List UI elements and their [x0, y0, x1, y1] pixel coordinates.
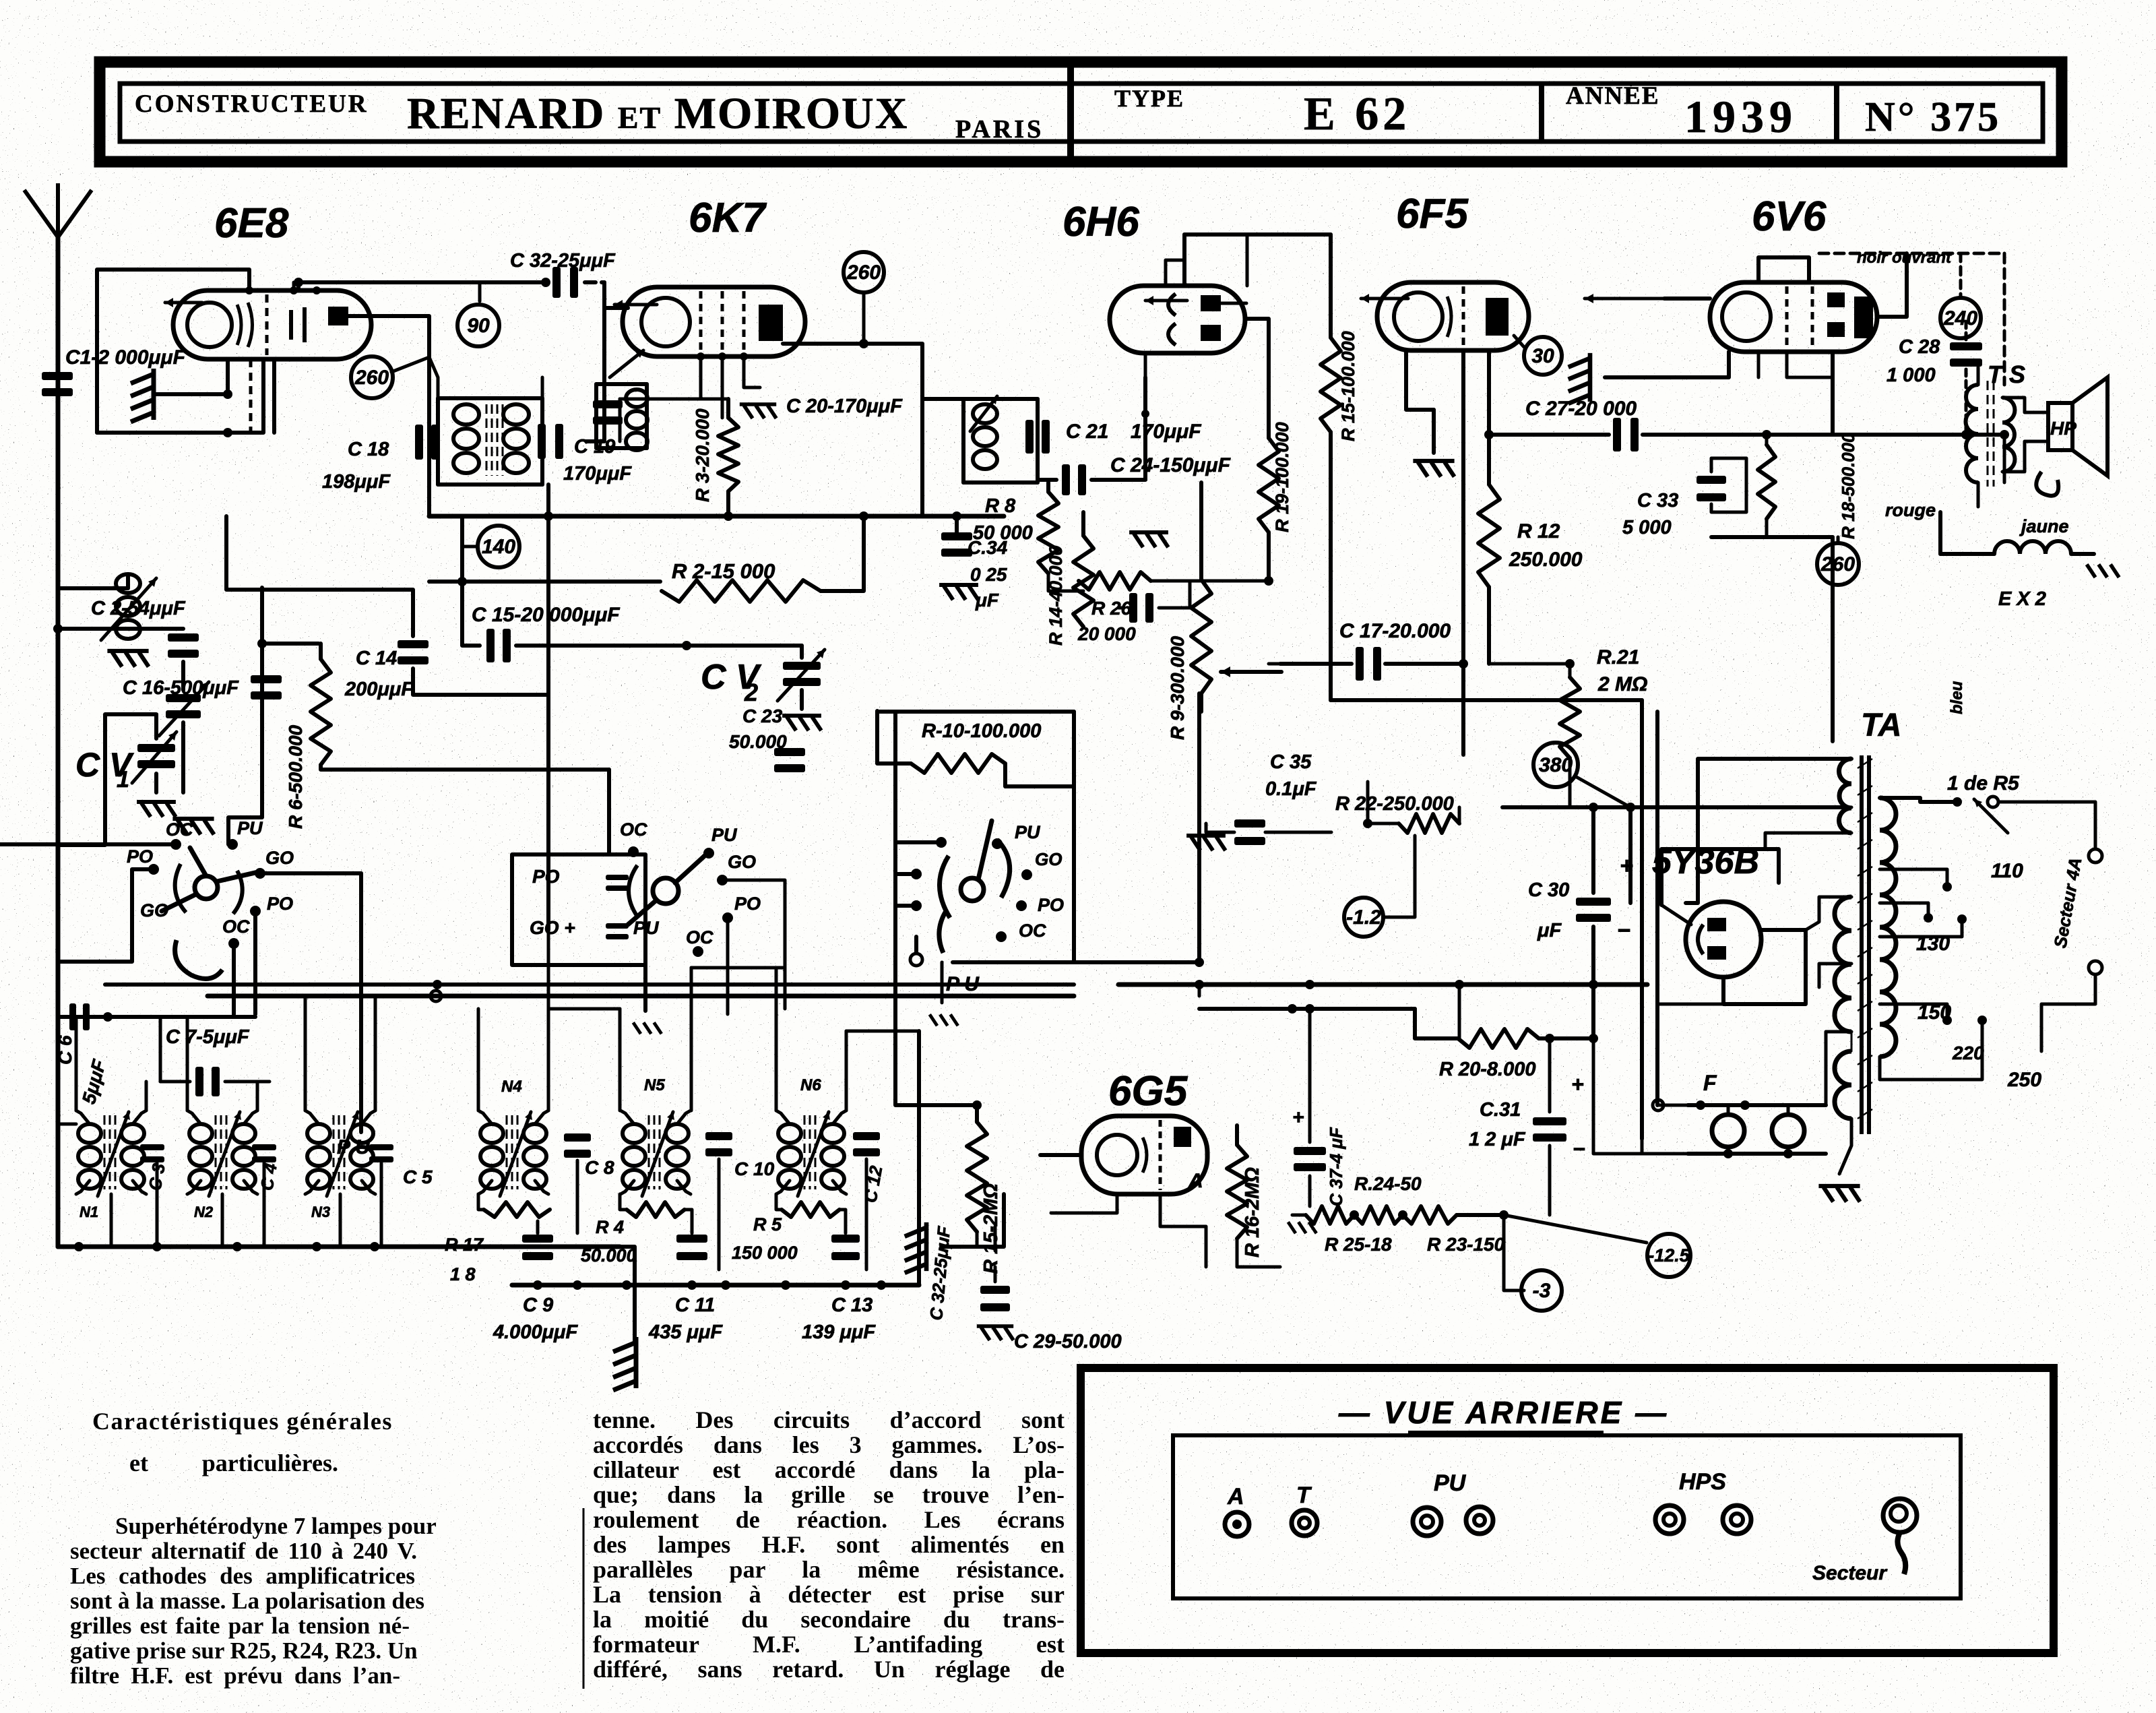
svg-text:R 14-40.000: R 14-40.000 [1046, 545, 1066, 646]
voltage node -3 [1521, 1270, 1562, 1311]
IF coil N6 arrow [798, 1112, 830, 1196]
svg-text:90: 90 [467, 315, 490, 337]
wire R16 bottom [1237, 1239, 1280, 1267]
wire grid cap into 6K7 [604, 306, 628, 310]
svg-text:R 6-500.000: R 6-500.000 [285, 724, 306, 829]
svg-text:N6: N6 [800, 1076, 821, 1094]
node R19/R26 [1264, 576, 1273, 586]
text right line 10 [593, 1631, 1065, 1658]
svg-text:+: + [1620, 853, 1633, 879]
wire C7 left up [159, 1017, 162, 1082]
svg-text:PU: PU [1015, 822, 1041, 842]
text left line 7 [70, 1663, 400, 1688]
wire main screen bus [429, 514, 1004, 519]
wire cathode to ground [1432, 410, 1436, 453]
wire C27 to 6V6 grid [1643, 433, 1833, 437]
6E8 cathode circle [187, 303, 232, 347]
contact SW3 left 1 [936, 837, 947, 848]
svg-text:139 μμF: 139 μμF [802, 1321, 876, 1343]
contact SW1 PO right [250, 906, 261, 916]
SW1 lever right [217, 872, 258, 881]
column divider [583, 1508, 585, 1689]
capacitor C28 [1950, 342, 1982, 367]
svg-text:C 27-20 000: C 27-20 000 [1525, 398, 1637, 420]
wire fuse top [1688, 1103, 1826, 1107]
IF1 primary coil [453, 404, 479, 473]
pin 6K7 [697, 352, 705, 361]
svg-text:bleu: bleu [1948, 681, 1966, 714]
IF coil N5 secondary [666, 1124, 689, 1189]
node R24/R23 [1398, 1210, 1407, 1220]
node bus R3 [724, 511, 733, 521]
contact SW3 OC [996, 931, 1007, 942]
contact SW2 GO [717, 875, 728, 885]
6V6 screen plates [1827, 292, 1845, 307]
contact SW1 GO right [255, 868, 265, 879]
wire 6V6 pins join [1787, 352, 1833, 377]
ground mid 6H6 [1129, 532, 1168, 547]
wire 6H6 plate out [1245, 319, 1269, 377]
wire SW2 PO down [726, 918, 730, 1014]
node bus c37 [1305, 980, 1314, 989]
oscillator coil N3 core [334, 1115, 344, 1189]
svg-text:C 23: C 23 [742, 706, 783, 726]
capacitor C23 [774, 748, 805, 772]
svg-text:C 14: C 14 [356, 648, 397, 669]
wire 260 stem up [1837, 537, 1840, 543]
contact SW1 PU [227, 839, 238, 850]
node bus2 C13 [841, 1280, 850, 1290]
wire R26 to R19 [1151, 580, 1269, 583]
wire 6E8 plate to bus [348, 316, 429, 516]
svg-text:R 5: R 5 [753, 1214, 782, 1235]
text right line 6 [593, 1532, 1065, 1558]
svg-text:1 000: 1 000 [1886, 365, 1936, 386]
svg-text:TA: TA [1861, 708, 1901, 743]
svg-text:GO +: GO + [530, 917, 575, 938]
svg-text:TYPE: TYPE [1114, 85, 1184, 112]
svg-text:R 3-20.000: R 3-20.000 [692, 408, 713, 502]
wire R23 right [1457, 1213, 1504, 1217]
6F5 filament arrow [1361, 294, 1408, 303]
wire SW1 OC2 down [232, 943, 236, 1014]
wire R17 left [478, 1194, 484, 1210]
wire gnd to R25 [1292, 1214, 1306, 1217]
wire to R21 [1489, 662, 1570, 666]
text right line 4 [593, 1482, 1065, 1508]
ground SW2 [633, 1022, 662, 1034]
svg-text:30: 30 [1531, 345, 1554, 367]
wire IF1 bottom [438, 482, 542, 487]
wire C32b up [994, 1226, 997, 1251]
node on grid box [223, 428, 232, 437]
node 110 [1942, 882, 1952, 892]
wire R2 right to bus [821, 516, 864, 591]
svg-text:GO: GO [265, 848, 294, 868]
band switch SW1 rotor [195, 876, 218, 899]
capacitor C37 [1294, 1147, 1326, 1171]
voltage node 30 at 6F5 [1524, 337, 1562, 375]
SW1 lever up [190, 848, 206, 876]
wire bus y1039 [1331, 698, 1642, 702]
wire R17 to C9 [536, 1221, 540, 1233]
wire to R2 [462, 580, 660, 584]
node 130b [1957, 914, 1967, 924]
wire to C27 [1489, 433, 1609, 437]
wire R9 bottom [1199, 693, 1203, 712]
wire TA fil to 5Y [1806, 897, 1851, 930]
node plate wire [859, 339, 868, 348]
wire bus to C34 [955, 516, 959, 536]
tuning coil N2 secondary [232, 1124, 255, 1189]
SW1 PU curve [175, 940, 222, 978]
terminal T [1292, 1510, 1317, 1536]
wire C17 right [1385, 662, 1463, 666]
svg-text:1 2 μF: 1 2 μF [1469, 1129, 1526, 1150]
wire output cathode line [1833, 433, 2004, 437]
antenna coil N1 secondary [121, 1124, 144, 1189]
wire R4 left [620, 1194, 627, 1210]
svg-text:PU: PU [237, 818, 263, 838]
wire IF2s left [961, 399, 965, 482]
svg-text:R 17: R 17 [445, 1235, 484, 1255]
ground near C20 [740, 404, 776, 418]
wire fuse stub [1727, 1105, 1730, 1115]
wire 6G5 out [1160, 1194, 1206, 1267]
svg-text:R.24-50: R.24-50 [1354, 1173, 1422, 1194]
ground C35 [1186, 836, 1226, 850]
svg-text:μF: μF [975, 590, 999, 611]
wire 380 stem [1575, 776, 1630, 807]
wire R5 left [776, 1194, 782, 1210]
wire SW3 box right [1072, 712, 1076, 962]
text right line 5 [593, 1507, 1065, 1533]
wire to C17 [1280, 662, 1352, 666]
wire R21 bottom [1568, 758, 1572, 807]
wire N6 link [846, 1030, 919, 1033]
svg-text:μF: μF [1537, 920, 1562, 941]
IF coil N5 lead [621, 1111, 634, 1124]
wire N1 sec up [145, 1082, 148, 1111]
svg-text:R 2-15 000: R 2-15 000 [672, 559, 775, 583]
node top bus left [294, 278, 303, 287]
rear view inner panel [1173, 1435, 1961, 1598]
node antenna junction [53, 624, 63, 633]
IF coil N5 primary [623, 1124, 645, 1189]
svg-text:140: 140 [482, 536, 515, 558]
triode 6F5 envelope [1377, 282, 1529, 350]
wire 6F5 cathode [1406, 350, 1434, 410]
svg-text:R 20-8.000: R 20-8.000 [1439, 1059, 1536, 1080]
wire CV1 top to antenna lead [58, 714, 156, 845]
wire IF2s bottom [963, 480, 1038, 485]
capacitor C6 [69, 1003, 90, 1030]
wire trimmer to ground [181, 722, 185, 792]
wire to R6 [262, 642, 319, 646]
resistor R23 [1403, 1206, 1457, 1224]
svg-text:C 16-500μμF: C 16-500μμF [123, 677, 239, 699]
capacitor C9 [522, 1235, 553, 1260]
wire IF2p bottom [596, 446, 647, 450]
wire to -3 [1504, 1215, 1524, 1290]
pin 6K7 2 [718, 352, 726, 361]
wire 6K7 grid loop down [586, 377, 604, 441]
6E8 plate hatch [291, 307, 305, 342]
svg-text:OC: OC [222, 916, 250, 937]
wire stem to 90 circle [478, 282, 482, 301]
svg-text:CONSTRUCTEUR: CONSTRUCTEUR [135, 90, 368, 118]
wire 6F5 grid down [1461, 350, 1465, 664]
wire selector to secteur [1998, 802, 2095, 848]
rectifier 5Y3GB envelope [1686, 902, 1761, 977]
svg-text:R.21: R.21 [1597, 646, 1639, 668]
contact SW3 GO [1021, 869, 1032, 880]
wire 6V6 arrow lead [1664, 297, 1710, 301]
wire antenna to N1 [58, 1123, 76, 1126]
node bus2 c [721, 1280, 730, 1290]
text left line 1 [115, 1514, 417, 1538]
svg-text:— VUE ARRIERE —: — VUE ARRIERE — [1338, 1395, 1669, 1430]
wire C36 stub [1118, 606, 1124, 610]
SW1 arc 2 [233, 871, 243, 914]
wire 5Y bracket [1661, 849, 1779, 905]
wire N4 top up [477, 1009, 480, 1111]
wire N3 sec up [374, 996, 377, 1111]
node gb3 [232, 1242, 242, 1251]
node bus x814 [544, 511, 553, 521]
wire IF2s right [1036, 399, 1040, 482]
band switch SW3 rotor [961, 878, 984, 901]
wire TA to 5Y plate left [1686, 759, 1851, 903]
wire IF1 right side [540, 398, 544, 485]
svg-text:N° 375: N° 375 [1865, 94, 2001, 140]
svg-text:HPS: HPS [1679, 1469, 1726, 1495]
wire to SW1 OC [0, 842, 176, 846]
svg-text:C 33: C 33 [1637, 490, 1678, 511]
resistor R2 [662, 580, 821, 602]
IF coil N6 lead2 [833, 1111, 846, 1124]
wire bus left to R2 node [429, 580, 462, 584]
wire C10 down [718, 1159, 721, 1270]
text right line 8 [593, 1582, 1065, 1608]
wire screen bus [620, 398, 728, 401]
wire C37 down [1308, 1176, 1312, 1206]
resistor R19 [1259, 438, 1279, 532]
capacitor C32 bis [980, 1286, 1010, 1311]
wire N2 down [221, 1194, 224, 1247]
node open bus [431, 991, 441, 1001]
text left line 2 [70, 1538, 417, 1563]
svg-text:6K7: 6K7 [689, 195, 767, 241]
svg-text:C 32-25μμF: C 32-25μμF [510, 250, 616, 272]
svg-text:C 24-150μμF: C 24-150μμF [1110, 454, 1231, 476]
TA secondary winding [1880, 798, 1896, 1057]
pentode 6K7 envelope [623, 287, 805, 356]
terminal secteur 2 [2089, 961, 2102, 974]
ground 6E8 cathode [131, 369, 154, 422]
SW3 PU lever [939, 911, 946, 953]
wire C30 down [1591, 927, 1595, 1038]
ground CV2 [782, 716, 821, 730]
wire N3 top up [304, 996, 307, 1111]
ground SW3 [930, 1014, 958, 1026]
capacitor C34 [941, 532, 972, 557]
wire TS to HP [2002, 398, 2048, 412]
node left R2 [457, 577, 467, 586]
wire IF2 link [922, 397, 963, 401]
svg-text:E 62: E 62 [1304, 88, 1410, 140]
node R15 [972, 1100, 982, 1110]
resistor R10 [911, 754, 1005, 773]
CV2 arrow [778, 650, 825, 701]
tuning coil N2 lead [187, 1111, 201, 1124]
resistor R14 [1073, 536, 1093, 627]
wire C31 down [1548, 1146, 1552, 1215]
svg-text:-12.5: -12.5 [1648, 1245, 1690, 1266]
antenna coil N1 lead3 [76, 1181, 90, 1194]
svg-text:OC: OC [166, 819, 193, 840]
wire R22 stub up [1366, 782, 1370, 823]
wire bracket to tube [1661, 905, 1691, 925]
wire N2 top up [186, 1017, 189, 1111]
wire bus to ground [620, 1247, 635, 1344]
CV1 arrow [132, 732, 177, 783]
6G5 cathode circle [1097, 1135, 1137, 1175]
IF coil N5 lead4 [677, 1181, 691, 1194]
capacitor C1 [42, 372, 73, 396]
svg-text:PO: PO [532, 866, 560, 887]
wire 6E8 grid box [97, 270, 249, 433]
wire SW2 down [643, 949, 647, 1011]
svg-text:C 30: C 30 [1528, 879, 1569, 901]
svg-text:0.1μF: 0.1μF [1265, 778, 1317, 800]
voltage node 260 right [1817, 543, 1859, 585]
wire 6K7 grid loop vertical [602, 282, 606, 377]
wire 6H6 top loop left [1182, 235, 1186, 286]
svg-text:C 5: C 5 [403, 1166, 433, 1187]
band switch SW2 rotor [653, 878, 678, 904]
wire to R22 [1368, 822, 1399, 826]
wire C5 down [380, 1163, 383, 1247]
svg-text:HP: HP [2050, 418, 2076, 439]
svg-text:jaune: jaune [2019, 516, 2069, 536]
resistor R6 [311, 659, 331, 765]
svg-text:N4: N4 [501, 1078, 522, 1096]
IF2s arrow [970, 396, 997, 431]
capacitor C13 [831, 1235, 860, 1260]
svg-text:C 6: C 6 [55, 1035, 75, 1065]
SW1 lever left [162, 894, 196, 911]
svg-text:−: − [1617, 918, 1630, 943]
svg-text:N2: N2 [194, 1204, 214, 1220]
wire tap 110 [1880, 869, 1947, 883]
antenna [24, 183, 92, 237]
IF coil N4 core [507, 1115, 517, 1189]
svg-text:250.000: 250.000 [1509, 549, 1583, 571]
svg-text:R 16-2MΩ: R 16-2MΩ [1242, 1167, 1263, 1257]
svg-text:1: 1 [117, 767, 129, 792]
IF coil N6 lead4 [833, 1181, 846, 1194]
wire C32 out [585, 280, 604, 284]
text right line 3 [593, 1457, 1065, 1483]
6F5 grid dashed [1462, 286, 1465, 347]
oscillator coil N3 arrow [327, 1112, 359, 1196]
text left line 4 [70, 1588, 419, 1613]
svg-text:2: 2 [744, 679, 758, 706]
SW3 arc [939, 840, 1009, 918]
wire C2 to trimmer [181, 662, 185, 690]
wire IF1 top [438, 396, 542, 400]
svg-text:F: F [1703, 1071, 1717, 1095]
svg-text:C 21: C 21 [1066, 421, 1108, 443]
svg-text:R 15-100.000: R 15-100.000 [1338, 331, 1358, 441]
wire to C14 [262, 590, 413, 636]
wire dashed top to TS [1819, 252, 2004, 255]
node bus [1455, 980, 1464, 989]
node CV2 stem [682, 641, 691, 650]
svg-text:−: − [1573, 1137, 1585, 1161]
wire to 6E8 top [296, 282, 300, 290]
field coil EX2 [1994, 541, 2071, 554]
fuse 1 [1712, 1115, 1744, 1147]
node C28 [1961, 430, 1971, 439]
wire long vertical right 2 [1655, 712, 1659, 1105]
svg-text:R 18-500.000: R 18-500.000 [1838, 433, 1858, 539]
resistor R17 [484, 1202, 550, 1217]
contact SW2 OC [628, 846, 639, 857]
wire EX2 to ground [2071, 552, 2094, 556]
fuse 2 [1772, 1115, 1804, 1147]
beam tetrode 6V6 envelope [1710, 282, 1877, 352]
6E8 pin dashed down [249, 359, 253, 433]
wire R22 right up [1458, 807, 1461, 823]
IF coil N4 lead4 [535, 1181, 548, 1194]
6K7 anode plate [759, 305, 783, 341]
wire to R10 [877, 711, 911, 764]
terminal PU 1 [1413, 1507, 1441, 1536]
wire bus to C14 line [226, 516, 262, 590]
IF coil N4 arrow [500, 1112, 532, 1196]
wire C35 right [1265, 831, 1331, 834]
wire SW1 GO to bus [260, 871, 361, 875]
svg-text:C 7-5μμF: C 7-5μμF [166, 1026, 250, 1048]
capacitor C30 [1576, 898, 1611, 922]
capacitor C21 [1025, 420, 1050, 454]
trimmer C3 [140, 1144, 164, 1162]
node bus C34 [952, 511, 961, 521]
IF coil N4 primary [480, 1124, 503, 1189]
svg-text:C 8: C 8 [585, 1157, 614, 1178]
IF coil N6 core [804, 1115, 815, 1189]
resistor R8 [1038, 492, 1058, 573]
ground under CV1 [137, 802, 176, 817]
wire padder box [512, 854, 645, 965]
wire long vertical right of 6H6 lower [1329, 432, 1333, 700]
tuning coil N2 core [216, 1115, 226, 1189]
IF coil N5 core [649, 1115, 660, 1189]
title block divider after 1939 [1834, 82, 1839, 143]
wire osc grid to SW1 [228, 588, 262, 844]
wire 250 up [1974, 1049, 1982, 1080]
text heading 2 [129, 1450, 338, 1476]
wire C3 down [156, 1163, 159, 1247]
wire n5 link [691, 966, 785, 970]
svg-text:170μμF: 170μμF [563, 463, 632, 485]
wire R21 top [1568, 664, 1572, 677]
node bus2 e [877, 1280, 886, 1290]
tuning coil N2 arrow [209, 1112, 241, 1196]
wire 6V6 plate to TS [1877, 253, 1907, 317]
